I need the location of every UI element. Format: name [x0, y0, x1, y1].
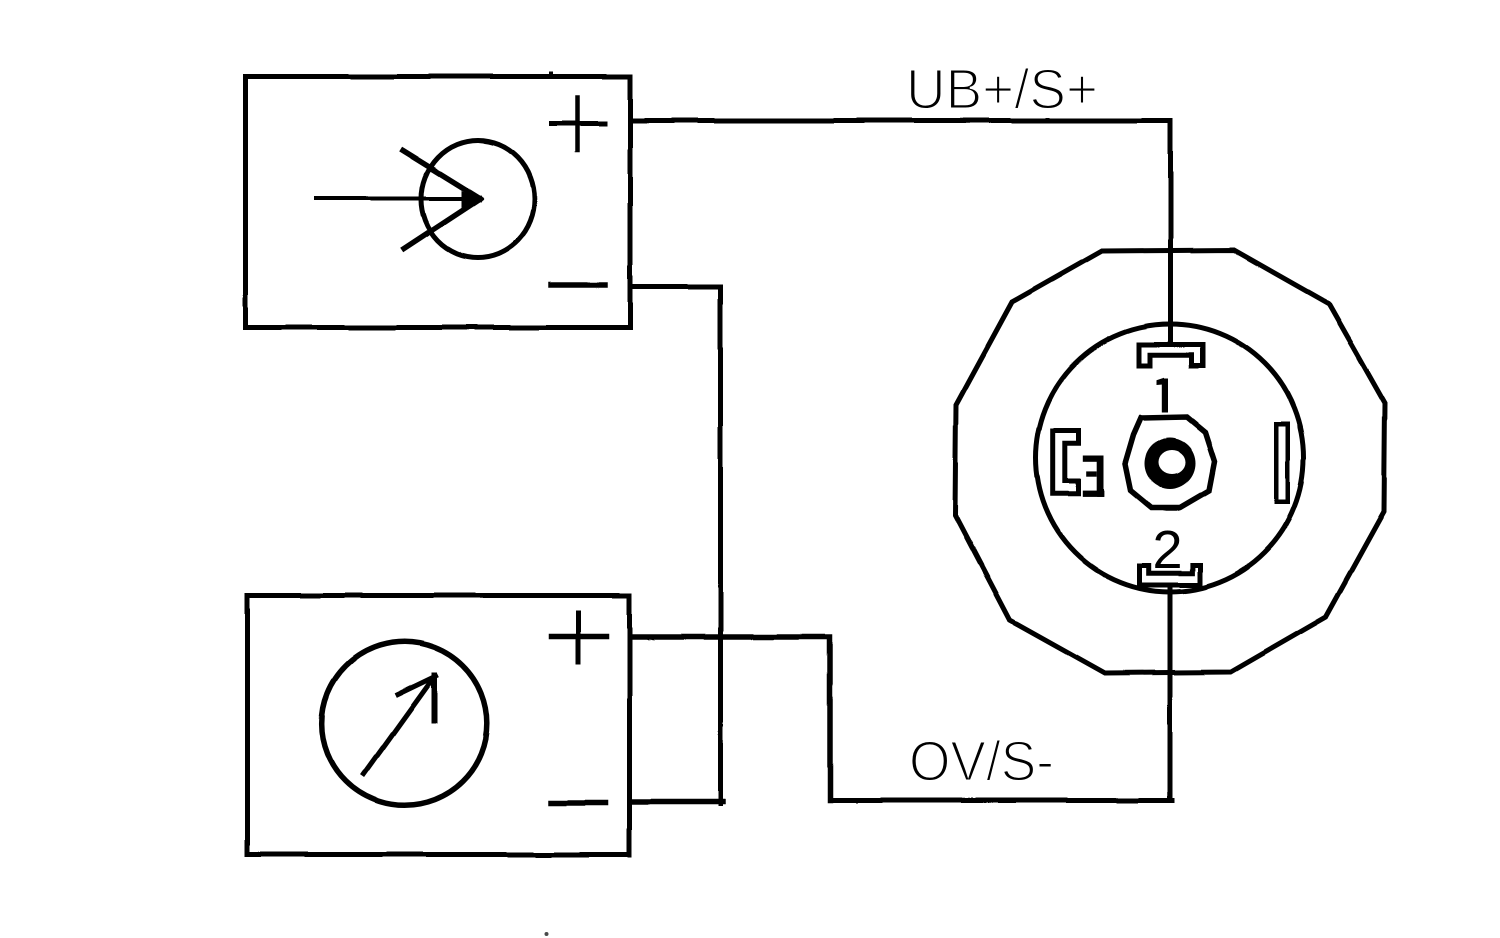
- meter needle barb left: [398, 676, 437, 695]
- wire meter minus stub: [631, 799, 723, 805]
- supply arrow shaft: [316, 197, 474, 201]
- supply minus terminal: [551, 282, 606, 288]
- connector face circle: [1036, 324, 1304, 592]
- wire pin2 down: [1168, 587, 1173, 798]
- connector body dodecagon: [955, 250, 1385, 673]
- pin 4 blade contact: [1277, 424, 1289, 502]
- digit 3 label: [1083, 456, 1104, 497]
- pin 1 contact: [1140, 345, 1203, 366]
- meter needle: [364, 678, 433, 774]
- supply box U1: [246, 77, 631, 328]
- meter plus terminal: [551, 633, 606, 639]
- svg-text:2: 2: [1153, 520, 1183, 580]
- svg-text:UB+/S+: UB+/S+: [906, 58, 1098, 122]
- supply arrowhead lower barb: [404, 199, 480, 249]
- pin label 1: [1157, 378, 1169, 413]
- wire meter plus to 0V: [632, 637, 830, 801]
- supply arrowhead tip: [462, 191, 482, 208]
- wire 0V/S- to pin2: [830, 798, 1172, 803]
- meter minus terminal: [551, 800, 605, 806]
- speck artifact: [545, 932, 549, 936]
- supply circle symbol: [422, 141, 535, 258]
- pin 2 contact: [1140, 566, 1201, 586]
- scan bump on supply box top edge: [549, 72, 553, 76]
- meter needle barb down: [432, 675, 438, 720]
- meter box M1: [248, 596, 630, 855]
- wire UB+/S+ supply plus to pin1: [633, 121, 1171, 345]
- meter circle: [322, 642, 488, 806]
- supply plus terminal: [551, 121, 605, 126]
- pin 3 contact bracket: [1053, 431, 1079, 494]
- supply arrowhead upper barb: [403, 151, 481, 199]
- center nut hexagon: [1125, 417, 1215, 508]
- wire supply minus down: [633, 287, 721, 804]
- svg-text:OV/S-: OV/S-: [909, 730, 1054, 794]
- center ring: [1145, 438, 1196, 489]
